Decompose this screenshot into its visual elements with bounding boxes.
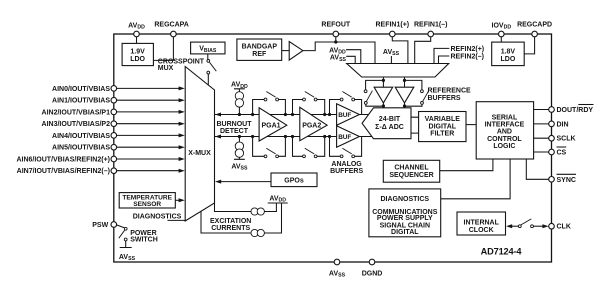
node reference (+) junction: [382, 79, 385, 82]
node ref buffer 2 output junction: [403, 104, 406, 107]
svg-text:AIN4/IOUT/VBIAS: AIN4/IOUT/VBIAS: [52, 133, 110, 140]
current source pair (excitation row 1): [251, 208, 258, 215]
wire GPOs to X-MUX with arrowhead: [220, 181, 272, 183]
analog rail (-) from X-MUX to ADC: [215, 136, 372, 138]
svg-text:Σ-Δ ADC: Σ-Δ ADC: [375, 124, 404, 131]
PGA1 bypass switch bottom: [253, 137, 265, 157]
svg-text:CURRENTS: CURRENTS: [211, 225, 250, 232]
PGA1 bypass switch top: [253, 100, 265, 115]
reference buffer bypass switch left: [366, 80, 384, 89]
pin IOVDD: [499, 31, 505, 37]
wire buffer output to REFOUT node and reference mux: [303, 42, 375, 64]
pin AIN5/IOUT/VBIAS: [111, 144, 117, 150]
wire AVDD pin to 1.9V LDO: [136, 34, 138, 43]
buffer REFERENCE BUFFER 1 (triangle down): [374, 87, 393, 103]
svg-text:DGND: DGND: [362, 270, 383, 277]
svg-text:DETECT: DETECT: [220, 128, 249, 135]
BUF bypass switch top: [330, 100, 341, 115]
PGA2 bypass switch bottom: [293, 137, 303, 157]
svg-text:DIGITAL: DIGITAL: [429, 123, 457, 130]
node ref buffer 1 output junction: [382, 104, 385, 107]
svg-text:CS: CS: [557, 150, 567, 157]
svg-text:LDO: LDO: [501, 56, 516, 63]
svg-text:1.8V: 1.8V: [501, 49, 516, 56]
svg-text:REFIN2(+): REFIN2(+): [451, 46, 485, 53]
svg-text:MUX: MUX: [158, 65, 174, 72]
wire IOVDD pin to 1.8V LDO: [500, 34, 502, 42]
block SERIAL INTERFACE AND CONTROL LOGIC: [476, 102, 533, 159]
svg-text:AIN0/IOUT/VBIAS: AIN0/IOUT/VBIAS: [52, 86, 110, 93]
pin DIN: [549, 121, 555, 127]
svg-text:CONTROL: CONTROL: [487, 136, 522, 143]
reference buffer bypass switch right: [405, 80, 422, 89]
svg-text:AVSS: AVSS: [330, 55, 347, 63]
wire excitation current row 1 to X-MUX: [215, 203, 277, 212]
svg-text:AVSS: AVSS: [383, 49, 400, 57]
svg-text:AIN2/IOUT/VBIAS/P1: AIN2/IOUT/VBIAS/P1: [42, 109, 111, 116]
regulator 1.8V LDO: [492, 42, 525, 66]
svg-text:AIN6/IOUT/VBIAS/REFIN2(+): AIN6/IOUT/VBIAS/REFIN2(+): [16, 156, 110, 163]
block GPOs: [271, 173, 317, 187]
svg-text:X-MUX: X-MUX: [188, 150, 211, 157]
amplifier PGA2: [300, 107, 327, 140]
wire reference mux output (+): [382, 77, 384, 87]
switch VBIAS to X-MUX: [207, 54, 209, 60]
block VARIABLE DIGITAL FILTER: [419, 112, 466, 142]
svg-text:REGCAPA: REGCAPA: [154, 21, 188, 28]
pin DGND: [369, 259, 375, 265]
wire REFIN2(+) into reference mux: [434, 48, 449, 63]
pin AIN6/IOUT/VBIAS/REFIN2(+): [111, 156, 117, 162]
svg-text:SERIAL: SERIAL: [492, 114, 518, 121]
svg-text:SENSOR: SENSOR: [133, 201, 161, 208]
svg-text:AVDD: AVDD: [269, 195, 286, 203]
pin AIN2/IOUT/VBIAS/P1: [111, 109, 117, 115]
pin AVDD (top): [134, 31, 140, 37]
wire REGCAPD pin to 1.8V LDO: [524, 34, 534, 54]
svg-text:DIGITAL: DIGITAL: [391, 229, 419, 236]
svg-text:VARIABLE: VARIABLE: [425, 116, 461, 123]
buffer BUF (-): [337, 126, 360, 148]
svg-text:AIN5/IOUT/VBIAS: AIN5/IOUT/VBIAS: [52, 145, 110, 152]
node reference (-) junction: [403, 79, 406, 82]
svg-text:DIAGNOSTICS: DIAGNOSTICS: [133, 213, 182, 220]
block INTERNAL CLOCK: [457, 212, 506, 235]
wire REFOUT pin stub: [335, 34, 337, 42]
node rail junctions (+): [238, 113, 241, 116]
svg-text:EXCITATION: EXCITATION: [210, 218, 251, 225]
multiplexer X-MUX: [185, 67, 214, 222]
svg-text:REFERENCE: REFERENCE: [428, 87, 472, 94]
wire ADC to filter (2 lines): [411, 117, 419, 133]
pin AIN1/IOUT/VBIAS: [111, 97, 117, 103]
buffer REFERENCE BUFFER 2 (triangle down): [395, 87, 414, 103]
pin AIN3/IOUT/VBIAS/P2: [111, 121, 117, 127]
buffer BUF (+): [337, 104, 360, 126]
svg-text:FILTER: FILTER: [430, 130, 454, 137]
svg-text:SCLK: SCLK: [557, 136, 576, 143]
svg-text:BUF: BUF: [338, 134, 351, 141]
wire serial box to diagnostics: [441, 159, 510, 199]
burnout current source AVSS (bottom): [238, 137, 240, 142]
pin REFIN1(-): [428, 31, 434, 37]
regulator 1.9V LDO: [122, 43, 153, 65]
svg-text:LOGIC: LOGIC: [493, 143, 515, 150]
svg-text:INTERNAL: INTERNAL: [464, 220, 500, 227]
pin DOUT/RDY: [549, 107, 555, 113]
svg-text:DOUT/RDY: DOUT/RDY: [557, 107, 594, 114]
wire serial box to channel sequencer: [440, 159, 493, 171]
svg-text:PGA2: PGA2: [302, 123, 321, 130]
pin CLK: [549, 223, 555, 229]
svg-text:REFOUT: REFOUT: [321, 21, 351, 28]
block BANDGAP REF: [237, 39, 282, 60]
pin SCLK: [549, 135, 555, 141]
reference mux trapezoid: [347, 64, 449, 78]
svg-text:REFIN1(–): REFIN1(–): [414, 21, 447, 28]
svg-text:BUFFERS: BUFFERS: [330, 168, 363, 175]
wire serial box to SYNC pin: [526, 159, 548, 179]
svg-text:AVDD: AVDD: [128, 22, 145, 30]
switch POWER SWITCH: [117, 225, 125, 228]
svg-text:1.9V: 1.9V: [130, 49, 145, 56]
pin PSW: [111, 222, 117, 228]
block VBIAS: [191, 42, 225, 54]
wire excitation current row 2 to X-MUX: [201, 203, 282, 233]
BUF bypass switch bottom: [330, 137, 341, 157]
pin SYNC: [549, 177, 555, 183]
svg-text:GPOs: GPOs: [284, 178, 304, 185]
PGA2 bypass switch top: [293, 100, 303, 115]
AIN input wires and arrowheads into X-MUX: [117, 86, 185, 172]
svg-text:SWITCH: SWITCH: [130, 237, 158, 244]
pin REFOUT: [333, 31, 339, 37]
analog rail (+) from X-MUX to ADC: [215, 114, 369, 116]
op-amp reference output buffer: [289, 42, 303, 61]
block CHANNEL SEQUENCER: [383, 160, 439, 182]
chip boundary AD7124-4: [114, 34, 552, 262]
svg-text:SEQUENCER: SEQUENCER: [389, 172, 433, 179]
svg-text:PGA1: PGA1: [262, 123, 281, 130]
pin AVSS (bottom): [334, 259, 340, 265]
wire REFIN2(-) into reference mux: [439, 56, 450, 64]
svg-text:REFIN1(+): REFIN1(+): [375, 21, 409, 28]
svg-text:BANDGAP: BANDGAP: [242, 44, 278, 51]
svg-text:CLK: CLK: [557, 224, 571, 231]
svg-text:INTERFACE: INTERFACE: [485, 122, 525, 129]
block DIAGNOSTICS: [369, 189, 441, 237]
svg-text:AIN3/IOUT/VBIAS/P2: AIN3/IOUT/VBIAS/P2: [42, 121, 111, 128]
svg-text:AVSS: AVSS: [231, 163, 248, 171]
pin REFIN1(+): [390, 31, 396, 37]
node rail junctions (-): [238, 135, 241, 138]
wire reference mux output (-): [404, 77, 406, 87]
svg-text:SYNC: SYNC: [557, 177, 576, 184]
wire BANDGAP REF to buffer: [282, 50, 290, 52]
svg-text:LDO: LDO: [130, 56, 145, 63]
ADC 24-BIT sigma-delta: [362, 108, 411, 139]
pin REGCAPA: [171, 31, 177, 37]
amplifier PGA1: [259, 108, 287, 141]
wire ref buffer 1 output to ADC: [382, 103, 384, 108]
wire temperature sensor to X-MUX with arrowhead: [175, 199, 179, 201]
svg-text:AND: AND: [497, 129, 512, 136]
svg-text:VBIAS: VBIAS: [199, 46, 217, 54]
svg-text:AVSS: AVSS: [119, 254, 136, 262]
wire REGCAPA pin to 1.9V LDO: [153, 34, 173, 60]
svg-text:PSW: PSW: [92, 222, 108, 229]
wire filter to serial interface: [466, 124, 476, 126]
pin REGCAPD: [532, 31, 538, 37]
svg-text:DIAGNOSTICS: DIAGNOSTICS: [380, 196, 429, 203]
svg-text:AIN1/IOUT/VBIAS: AIN1/IOUT/VBIAS: [52, 98, 110, 105]
wire AVSS into reference mux: [346, 56, 355, 63]
svg-text:POWER SUPPLY: POWER SUPPLY: [377, 215, 433, 222]
wire AVSS stub into reference mux (center): [390, 56, 392, 64]
svg-text:BUFFERS: BUFFERS: [428, 95, 461, 102]
svg-text:CHANNEL: CHANNEL: [394, 165, 429, 172]
svg-text:DIN: DIN: [557, 121, 569, 128]
pin AIN4/IOUT/VBIAS: [111, 133, 117, 139]
wire ref buffer 2 output to ADC: [404, 103, 406, 108]
svg-text:REFIN2(–): REFIN2(–): [451, 54, 484, 61]
svg-text:BUF: BUF: [338, 112, 351, 119]
svg-text:CLOCK: CLOCK: [469, 227, 494, 234]
wire AVDD into reference mux: [346, 50, 361, 64]
pin CS: [549, 149, 555, 155]
svg-text:AIN7/IOUT/VBIAS/REFIN2(–): AIN7/IOUT/VBIAS/REFIN2(–): [17, 168, 110, 175]
svg-text:AD7124-4: AD7124-4: [481, 246, 523, 256]
svg-text:REF: REF: [252, 51, 267, 58]
wire REFIN1(-) pin into reference mux: [415, 34, 431, 64]
svg-text:AVSS: AVSS: [329, 270, 346, 278]
node REFOUT junction: [334, 40, 337, 43]
svg-text:24-BIT: 24-BIT: [379, 116, 401, 123]
wire REFIN1(+) pin into reference mux: [392, 34, 408, 64]
arrowhead rail (+) into X-MUX: [215, 113, 221, 117]
svg-text:REGCAPD: REGCAPD: [517, 21, 552, 28]
arrowhead rail (-) into X-MUX: [215, 135, 221, 139]
current source pair (excitation row 2): [251, 229, 258, 236]
pin AIN0/IOUT/VBIAS: [111, 86, 117, 92]
wire serial box to DOUT/RDY DIN SCLK CS pins: [534, 110, 549, 153]
block TEMPERATURE SENSOR: [119, 193, 175, 208]
wire diagnostics pointer to X-MUX corner: [168, 219, 186, 221]
switch internal clock to CLK pin: [506, 224, 512, 228]
svg-text:IOVDD: IOVDD: [492, 22, 512, 30]
pin AIN7/IOUT/VBIAS/REFIN2(-): [111, 168, 117, 174]
